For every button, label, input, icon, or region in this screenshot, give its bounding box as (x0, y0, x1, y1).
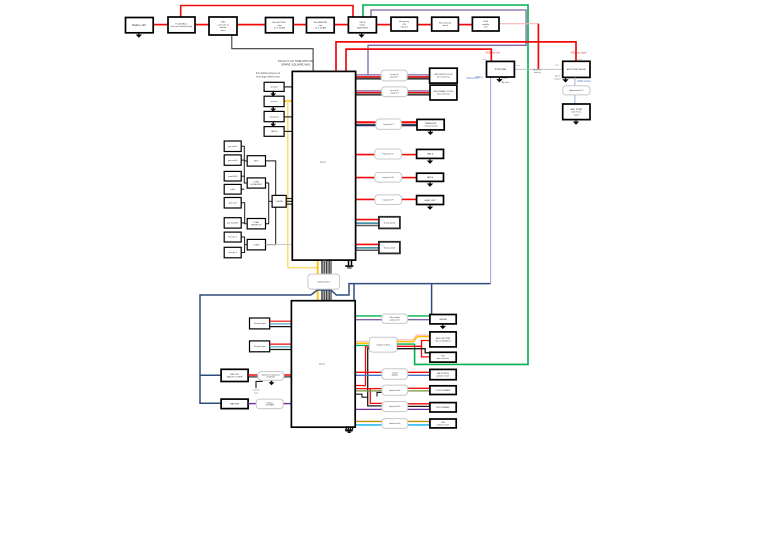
svg-text:WALLET COVER: WALLET COVER (227, 375, 243, 378)
box row H (379, 242, 400, 254)
wire red bus segment 3 (237, 24, 266, 26)
connector control updates (382, 369, 408, 380)
connector approved kit (563, 86, 590, 95)
left cluster box L3 (224, 171, 241, 181)
wire blue row3 right (408, 374, 430, 376)
wire navy long horizontal (311, 284, 491, 295)
svg-text:KEYS: KEYS (360, 22, 366, 24)
wire bus2 cluster (241, 203, 247, 224)
wire row A red (356, 76, 382, 78)
wire box A to ECU (284, 86, 292, 88)
wire pink from ECM to red drop (499, 23, 538, 25)
serial switch B8 (432, 17, 459, 31)
svg-text:E-xtra speed: E-xtra speed (384, 221, 395, 224)
wire row F red right (402, 198, 417, 200)
svg-text:going arrival: going arrival (390, 320, 400, 322)
wire row H red (356, 243, 379, 245)
pump box P2 (563, 104, 590, 120)
wire blue monitor drop (490, 77, 492, 284)
wire red stadium2 drop (366, 347, 370, 386)
svg-text:blue led bright kit: blue led bright kit (435, 339, 451, 342)
wire row B purple (356, 90, 382, 92)
wire red bus segment 1 (153, 24, 168, 26)
svg-text:Cut the: Cut the (253, 389, 261, 392)
left cluster box L4 (224, 184, 241, 194)
wire breton red (248, 374, 258, 376)
fuse box B2 (168, 17, 195, 33)
wire black row2 to ssl (397, 349, 430, 353)
wire red row2 branch ssl (422, 346, 430, 357)
left cluster box L7 (224, 232, 241, 242)
svg-text:I sensor factory: I sensor factory (424, 125, 438, 128)
arrow chain C-D (270, 122, 276, 126)
wire row F red (356, 198, 375, 200)
wire row H gray (356, 249, 379, 251)
sensor box D (264, 127, 284, 137)
wire green row1 (355, 315, 382, 317)
wire purple row5 (355, 408, 382, 410)
motor relay B4 (266, 18, 294, 33)
svg-text:Speed at kit 6: Speed at kit 6 (389, 422, 400, 425)
wire purple row1 (355, 319, 382, 321)
svg-text:New MOTOR+: New MOTOR+ (273, 22, 287, 24)
wire navy left branch (200, 295, 311, 403)
wire dark yellow row6 (355, 420, 382, 422)
svg-text:pwr mod: pwr mod (229, 202, 237, 204)
svg-text:ADD MULTICOLOR: ADD MULTICOLOR (435, 73, 453, 76)
svg-text:relays: relays (360, 24, 366, 27)
wire row B purple right (408, 90, 431, 92)
svg-text:MASTER: MASTER (230, 403, 240, 406)
battery B1 (126, 18, 154, 33)
wire row C navy right (401, 124, 417, 126)
rs forward box (430, 403, 456, 412)
wire T1 black (270, 326, 292, 328)
wire yellow long vertical (288, 101, 318, 268)
svg-text:ADD: my dash: ADD: my dash (570, 51, 587, 54)
wire T2 black (270, 349, 292, 351)
wire black row5 right (408, 405, 430, 407)
wire gray load to ECU (266, 244, 293, 246)
ssl box (430, 352, 456, 362)
wire T1 red (270, 320, 292, 322)
svg-text:AM PETERS: AM PETERS (437, 372, 449, 375)
key box (247, 156, 265, 166)
wire red top loop from fuse box to keys relay (181, 6, 353, 18)
left cluster box L8 (224, 247, 241, 257)
svg-text:Injector kit D: Injector kit D (383, 153, 395, 156)
svg-text:5 A com: 5 A com (400, 26, 408, 29)
wire red drop to monitor link (537, 24, 539, 69)
connector row C (376, 119, 401, 129)
wire red bus segment 5 (334, 24, 348, 26)
wire row A purple right (407, 74, 429, 76)
connector fibre update (382, 314, 408, 323)
wire breton black (248, 376, 258, 378)
wire row B black (356, 94, 382, 96)
keys relay B6 (348, 17, 376, 33)
wire red row2 branch (397, 341, 430, 347)
svg-text:kit w extension: kit w extension (437, 93, 450, 96)
svg-text:switch: switch (573, 113, 580, 116)
svg-text:Thermal input: Thermal input (253, 345, 266, 348)
arrow chain B-C (270, 107, 276, 111)
wire green row2 right big loop (397, 343, 415, 345)
svg-text:LIGH MINI: LIGH MINI (265, 405, 274, 407)
box row D (417, 149, 444, 158)
svg-text:behind: behind (220, 27, 227, 29)
svg-text:big in: big in (555, 76, 561, 78)
connector speed kit 6 (382, 419, 408, 429)
svg-text:updates: updates (392, 374, 398, 377)
box row E (417, 173, 444, 181)
svg-text:problem switch: problem switch (437, 423, 450, 426)
wire bundle line 2 (323, 260, 325, 301)
wire red row5 right (408, 403, 430, 405)
wire red line 1 to pump relay (336, 42, 576, 72)
wire T1 cyan (270, 323, 292, 325)
ground IEC below lower ECU (345, 426, 354, 432)
wire red bus segment 7 (417, 24, 431, 26)
master box (221, 399, 248, 409)
wire choke to ECU 1 (286, 198, 292, 200)
thermal switch T1 (250, 318, 270, 329)
svg-text:Accessory: Accessory (399, 20, 410, 23)
svg-text:how dogs strikes rides: how dogs strikes rides (256, 75, 280, 78)
svg-text:at start: at start (271, 100, 278, 103)
svg-text:HDD a: HDD a (475, 76, 483, 79)
svg-text:Speed at kit 5: Speed at kit 5 (389, 405, 400, 408)
wire navy to green box (431, 284, 433, 315)
ground arrow below pump relay (562, 78, 568, 83)
svg-text:Injector kit E: Injector kit E (383, 176, 395, 179)
wire options purple to ECU (283, 403, 291, 405)
wire bundle line 5 (330, 260, 332, 301)
wire blue relay chain (574, 77, 576, 85)
svg-text:unit: unit (319, 24, 323, 27)
wrangler box C (417, 119, 444, 129)
led trim box (430, 332, 456, 347)
svg-text:All desk: All desk (502, 81, 511, 84)
wire olive row4 right (408, 390, 430, 392)
svg-text:pwr mod 1: pwr mod 1 (228, 146, 238, 148)
wire L3 stub (241, 175, 244, 177)
wire blue row3 (355, 374, 382, 376)
wire red row4 branch (370, 388, 382, 390)
wire L4 stub (241, 188, 244, 190)
OBD connector B3 (209, 17, 237, 35)
svg-text:RESISTOR: RESISTOR (251, 225, 262, 227)
wire row G gray (356, 225, 379, 227)
svg-text:on/start: on/start (270, 86, 278, 89)
svg-text:ECU: ECU (320, 160, 326, 164)
left cluster box L1 (224, 141, 241, 152)
wire row H teal (356, 247, 379, 249)
wire black from OBD box to ECU top (232, 35, 313, 71)
svg-text:on/off links: on/off links (267, 377, 276, 379)
svg-text:module: module (482, 24, 490, 26)
ECM module B9 (472, 17, 499, 31)
wire navy to lower ECU (353, 284, 355, 301)
svg-text:12 V: 12 V (484, 27, 489, 29)
thermal switch T2 (250, 341, 270, 352)
wire dark yellow row6 right (408, 420, 430, 422)
ground arrow below pump box P2 (573, 120, 579, 125)
svg-text:POS FORWARD: POS FORWARD (435, 389, 451, 392)
pos forward box (430, 386, 456, 395)
wire black stadium2 drop (368, 348, 382, 406)
ground below box row E (427, 182, 433, 187)
svg-text:FAN M: FAN M (427, 176, 434, 179)
svg-text:ECM: ECM (483, 21, 488, 23)
am peters box (430, 369, 456, 379)
connector speed kit 5 (382, 402, 408, 412)
svg-text:channel 1: channel 1 (390, 77, 400, 79)
wire black row4 stub (377, 392, 382, 396)
wire red bus segment 2 (195, 24, 209, 26)
wire green row1 right (408, 315, 430, 317)
svg-text:(fuse box behind side): (fuse box behind side) (171, 26, 193, 28)
connector row D (375, 149, 402, 159)
wire purple row5 right (408, 408, 430, 410)
wire bundle line 3 (326, 260, 328, 301)
ground below box C (427, 130, 433, 135)
svg-text:firm opt 2: firm opt 2 (229, 251, 238, 254)
wire green main loop (363, 5, 528, 364)
wire row G teal (356, 222, 379, 224)
svg-text:Approved kit 2: Approved kit 2 (569, 89, 584, 92)
wire black ecu jog (355, 394, 368, 397)
ECU lower U20 (291, 301, 355, 428)
svg-text:ADD PUMP: ADD PUMP (571, 108, 583, 111)
green box (430, 315, 456, 324)
wire choke to ECU 2 (286, 200, 292, 202)
svg-text:Outputs kit No 2: Outputs kit No 2 (376, 343, 390, 346)
svg-text:WRANGLER: WRANGLER (425, 122, 437, 125)
svg-text:CHOKE: CHOKE (276, 201, 284, 203)
wire row B black right (408, 94, 431, 96)
sensor box B (264, 96, 284, 106)
svg-text:HDD control: HDD control (577, 80, 590, 83)
arrow below actions connector (269, 381, 275, 385)
wire row A purple (356, 74, 382, 76)
svg-text:12 V 20 AM: 12 V 20 AM (315, 27, 326, 30)
svg-text:battery: battery (534, 71, 542, 74)
wire choke left stub (269, 200, 272, 202)
wire red bus segment 6 (376, 24, 391, 26)
wire load stub (245, 244, 248, 246)
svg-text:Optional kit 2: Optional kit 2 (317, 280, 331, 283)
svg-text:FAN B: FAN B (427, 153, 434, 156)
svg-text:problem switch: problem switch (436, 375, 449, 378)
ECU upper U10 (292, 71, 355, 260)
svg-text:RS FORWARD: RS FORWARD (436, 406, 450, 409)
load box (247, 239, 265, 250)
svg-text:switch/300: switch/300 (228, 175, 238, 178)
wire red bus segment 4 (293, 24, 306, 26)
wire red row4 right (408, 387, 430, 389)
wire red bus segment 8 (458, 24, 472, 26)
breton box (221, 369, 248, 381)
svg-text:with TU at: with TU at (571, 111, 581, 114)
arrow chain A-B (270, 92, 276, 96)
ground below box row F (427, 205, 433, 210)
wire bundle line 1 (321, 260, 323, 301)
svg-text:ECU: ECU (319, 362, 325, 366)
multicolor box B (430, 85, 457, 100)
multicolor box A (430, 68, 458, 83)
svg-text:relay/unit: relay/unit (270, 115, 279, 118)
svg-text:ADD LED TRIM: ADD LED TRIM (436, 337, 450, 340)
wire gray monitor to pump relay (514, 68, 562, 70)
svg-text:OBD: OBD (221, 22, 226, 24)
svg-text:Serial factory: Serial factory (439, 22, 452, 25)
svg-text:E-xtra speed: E-xtra speed (384, 246, 395, 249)
svg-text:kit w extension: kit w extension (437, 76, 450, 79)
wire purple loop (368, 10, 526, 75)
connector row E (375, 173, 402, 183)
connector speed kit 4 (382, 385, 408, 395)
wire L2 stub (241, 159, 244, 161)
wire yellow row2 right (397, 337, 430, 342)
wire row E red (356, 177, 375, 179)
box row G (379, 217, 400, 229)
choke box (272, 195, 286, 207)
svg-text:EQUALIZER: EQUALIZER (251, 183, 263, 186)
wire row D red right (402, 154, 417, 156)
wire row C navy (356, 124, 376, 126)
ground below battery B1 (136, 33, 142, 38)
svg-text:Battery 12V: Battery 12V (133, 23, 147, 27)
load resistor (247, 219, 265, 229)
svg-text:GROU: GROU (271, 131, 278, 133)
svg-text:button: button (554, 77, 561, 80)
connector options ligh mini (256, 399, 283, 409)
wire row A black (356, 78, 382, 80)
sensor box A (264, 82, 284, 91)
svg-text:Thermal input: Thermal input (253, 322, 266, 325)
wire red row3 right (408, 371, 430, 373)
wire olive row4 (355, 390, 382, 392)
wire actions red to ECU (284, 374, 292, 376)
wire cyan row6 (355, 424, 382, 426)
svg-text:Monitor/: Monitor/ (533, 68, 541, 71)
svg-text:switch: switch (442, 24, 449, 27)
pump relay P1 (563, 61, 590, 77)
connector row F (375, 195, 402, 205)
wire red hook ecu (355, 385, 365, 387)
wire green row2 (351, 344, 369, 346)
svg-text:Injector kit F: Injector kit F (383, 198, 395, 201)
svg-text:DASH SIDE: DASH SIDE (357, 26, 369, 29)
svg-text:ADD: my red: ADD: my red (485, 51, 500, 54)
svg-text:channel 2: channel 2 (390, 93, 400, 95)
wire actions black to ECU (284, 376, 292, 378)
wire red row3 (355, 371, 382, 373)
svg-text:firm opt 1: firm opt 1 (229, 236, 238, 239)
svg-text:cabin: cabin (230, 189, 235, 191)
wire yellow bundle vertical (317, 260, 319, 301)
wire row G red (356, 219, 379, 221)
wire yellow from box to lower ECU (284, 100, 292, 102)
wire bus3 cluster (241, 237, 244, 253)
box row F (417, 196, 444, 205)
monitor U1 (487, 61, 515, 77)
svg-text:New MASTER: New MASTER (314, 21, 328, 24)
wire row A red right (407, 76, 429, 78)
wire pink row2 right (397, 335, 430, 340)
wire red row4 from ecu (355, 389, 382, 404)
ground arrow below monitor (496, 77, 502, 82)
master unit B5 (307, 18, 335, 33)
svg-text:ADD PUMP RELAY: ADD PUMP RELAY (567, 68, 587, 71)
wire row B red right (408, 92, 431, 94)
svg-text:GREEN: GREEN (439, 319, 447, 321)
connector actions for speed (258, 372, 284, 381)
ground IEC below upper ECU (345, 260, 353, 268)
wire row C red (356, 121, 376, 123)
wire purple row1 right (408, 319, 430, 321)
accessory B7 (391, 17, 417, 31)
svg-text:pwr mod B: pwr mod B (228, 160, 238, 162)
svg-text:12V: 12V (402, 24, 406, 26)
wire row A black right (407, 78, 429, 80)
left cluster box L2 (224, 155, 241, 165)
ground below green box (440, 324, 446, 329)
wire row E red right (402, 177, 417, 179)
wire key stub (244, 160, 247, 162)
svg-text:Fusible/ACC: Fusible/ACC (175, 22, 188, 25)
svg-text:connector at: connector at (217, 23, 229, 26)
svg-text:pwr mod BO: pwr mod BO (227, 223, 239, 225)
svg-text:Speed at kit 4: Speed at kit 4 (389, 389, 400, 392)
svg-text:LOAD: LOAD (254, 180, 260, 183)
wire cyan row6 right (408, 424, 430, 426)
wire row D red (356, 154, 375, 156)
svg-text:LOAD: LOAD (253, 243, 259, 246)
wire choke bottom to load (266, 207, 276, 244)
wire red line 2 to monitor (346, 49, 491, 71)
wire pink row2 (356, 340, 370, 342)
ground below box row D (427, 159, 433, 164)
wire bus1 cluster (241, 146, 247, 183)
wire T2 red (270, 343, 292, 345)
svg-text:SPARE SQUARE WIN: SPARE SQUARE WIN (281, 63, 310, 67)
svg-text:In the boat: In the boat (495, 68, 507, 71)
wire choke to ECU 3 (286, 203, 292, 205)
connector outputs kit 2 (369, 337, 397, 352)
svg-text:blue switches: blue switches (437, 357, 449, 360)
wire key to choke top (266, 161, 276, 196)
wire row C red right (401, 121, 417, 123)
left cluster box L5 (224, 198, 241, 209)
wire navy breton stub (200, 374, 221, 376)
connector row B (382, 87, 408, 97)
sensor box C (264, 111, 284, 121)
svg-text:KEY: KEY (254, 161, 259, 163)
lsb box (430, 419, 456, 428)
connector row A (381, 70, 407, 81)
connector optional kit (308, 274, 340, 289)
ground below keys relay B6 (358, 33, 364, 38)
wire cut fuse jumper (256, 381, 263, 388)
wire row B red (356, 92, 382, 94)
svg-text:LOAD: LOAD (254, 221, 260, 224)
wire box C to ECU (284, 116, 292, 118)
wire L6 stub (241, 222, 245, 224)
svg-text:HEAD UNIT: HEAD UNIT (424, 199, 436, 202)
wire yellow row2 (352, 342, 369, 344)
